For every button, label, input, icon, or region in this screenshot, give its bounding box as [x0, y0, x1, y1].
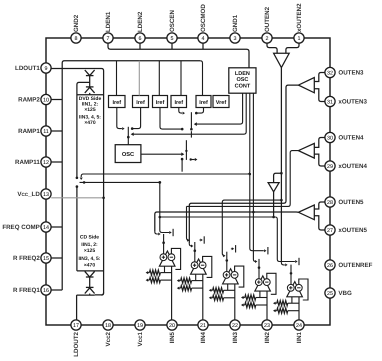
pin 11 circle [41, 126, 51, 136]
pin 2 circle [262, 33, 272, 43]
wire Iref4 bottom drop [179, 108, 182, 114]
wire r3 corner down (cell2 pole feed) [187, 206, 189, 240]
svg-text:OUTEN2: OUTEN2 [264, 6, 271, 32]
svg-text:IIN3: IIN3 [232, 331, 239, 343]
wire Iref2 bottom drop [132, 108, 140, 129]
pin 25 circle [325, 288, 335, 298]
wire CD diode base [77, 294, 95, 296]
wire pin12 RAMP11 stub [51, 161, 62, 163]
resistor R41 [243, 297, 245, 299]
pin 3 circle [230, 33, 240, 43]
svg-text:26: 26 [327, 263, 333, 269]
svg-text:27: 27 [327, 228, 333, 234]
wire LDEN control 2 [132, 93, 246, 134]
pin 4 circle [198, 33, 208, 43]
pin 18 circle [103, 320, 113, 330]
svg-text:29: 29 [327, 164, 333, 170]
pin 22 circle [230, 320, 240, 330]
svg-text:Iref: Iref [156, 100, 165, 106]
wire cell1 bar feed [160, 217, 170, 233]
resistor R11 [148, 272, 150, 274]
pin 21 circle [198, 320, 208, 330]
svg-text:CONT: CONT [235, 84, 251, 90]
wire base stub U13 [227, 284, 229, 290]
wire pin5 stub [171, 43, 173, 49]
switch SW2 select mark [199, 239, 202, 241]
wire pin9 LDOUT1 to LD column [51, 69, 103, 295]
feedback loop U13 [235, 266, 244, 287]
wire [181, 159, 183, 172]
wire inverter output [273, 192, 275, 217]
reference cell Iref3 [153, 96, 168, 108]
svg-text:2: 2 [266, 36, 269, 42]
wire cell1 feedA from rail [159, 182, 161, 217]
IC package outline [46, 38, 330, 325]
pin 24 circle [294, 320, 304, 330]
svg-text:OSC: OSC [122, 152, 134, 158]
op-amp U14 plus input [263, 279, 270, 286]
svg-text:20: 20 [169, 323, 175, 329]
svg-text:FREQ COMP: FREQ COMP [2, 224, 39, 231]
svg-text:LDEN1: LDEN1 [105, 11, 112, 32]
svg-text:×470: ×470 [84, 262, 95, 268]
svg-text:IIN3, 4, 5:: IIN3, 4, 5: [79, 256, 101, 262]
op-amp U14 minus input [255, 279, 262, 286]
wire Iref3 top drop [158, 61, 160, 96]
wire output U14 to pin 267 [266, 291, 268, 320]
inverter U6 [268, 183, 279, 192]
pin 17 circle [71, 320, 81, 330]
pin 13 circle [41, 189, 51, 199]
svg-text:xOUTEN3: xOUTEN3 [338, 99, 367, 106]
svg-text:R FREQ2: R FREQ2 [13, 255, 40, 262]
svg-text:OSCMOD: OSCMOD [200, 4, 207, 32]
svg-text:21: 21 [200, 323, 206, 329]
pin 26 circle [325, 260, 335, 270]
svg-text:R FREQ1: R FREQ1 [13, 287, 40, 294]
svg-text:OUTEN4: OUTEN4 [338, 135, 364, 142]
switch SW-C arrow [190, 158, 192, 160]
svg-text:×470: ×470 [84, 120, 95, 126]
pin 30 circle [325, 132, 335, 142]
control block LDEN OSC CONT [229, 68, 256, 93]
op-amp U15 minus input [287, 284, 294, 291]
pin 6 circle [135, 33, 145, 43]
svg-text:OUTEN5: OUTEN5 [338, 199, 364, 206]
feedback loop U12 [203, 256, 212, 277]
svg-text:OSC: OSC [236, 77, 248, 83]
switch SW4 [258, 259, 260, 267]
svg-text:25: 25 [327, 291, 333, 297]
switch SW-C pole [185, 140, 187, 160]
svg-text:OUTEN3: OUTEN3 [338, 70, 364, 77]
svg-text:IIN5: IIN5 [169, 331, 176, 343]
wire [89, 76, 91, 87]
wire [314, 216, 325, 230]
op-amp U13 A3 (IIN3) [223, 269, 239, 284]
svg-text:5: 5 [171, 36, 174, 42]
wire pin13 Vcc_LD (gray) [51, 197, 103, 199]
wire Iref4 top drop [180, 61, 182, 96]
svg-text:19: 19 [137, 323, 143, 329]
wire pin11 RAMP1 stub [51, 130, 62, 132]
pin 5 circle [167, 33, 177, 43]
svg-text:LDEN2: LDEN2 [137, 11, 144, 32]
feedback loop U14 [267, 273, 276, 294]
wire [89, 277, 91, 287]
svg-text:xOUTEN4: xOUTEN4 [338, 163, 367, 170]
wire LDEN control 4 (to cell4 pole) [253, 93, 255, 262]
svg-text:22: 22 [232, 323, 238, 329]
op-amp U13 minus input [223, 272, 230, 279]
svg-text:GND2: GND2 [73, 14, 80, 32]
switch SW-LD1 [76, 177, 79, 180]
wire rail r5 [160, 216, 275, 218]
wire OUTEN2 buffer output (feeds rail r1 and cell5 pole) [280, 68, 282, 263]
svg-text:24: 24 [296, 323, 302, 329]
op-amp U15 plus input [295, 284, 302, 291]
wire base stub U12 [195, 274, 197, 280]
svg-text:GND1: GND1 [232, 14, 239, 32]
svg-text:xOUTEN2: xOUTEN2 [296, 3, 303, 32]
pin 27 circle [325, 225, 335, 235]
wire pin16 R FREQ1 stub [51, 289, 62, 291]
wire tee to inverter [280, 172, 283, 175]
resistor R52 [275, 310, 277, 312]
pin 19 circle [135, 320, 145, 330]
resistor R32 [211, 297, 213, 299]
op-amp U14 A4 (IIN2) [255, 276, 271, 291]
photodiode D4 (CD) [86, 286, 94, 288]
wire rail r1 to cell3 [222, 200, 281, 256]
wire output U15 to pin 299 [298, 297, 300, 320]
CD box bottom [77, 270, 104, 272]
wire pin10 RAMP2 stub [51, 99, 62, 101]
svg-text:Iref: Iref [136, 100, 145, 106]
feedback loop U11 [171, 248, 180, 269]
switch SW1 [163, 234, 165, 242]
svg-text:OUTENREF: OUTENREF [338, 262, 372, 269]
svg-text:IIN4: IIN4 [200, 331, 207, 343]
svg-text:RAMP2: RAMP2 [18, 97, 40, 104]
svg-text:7: 7 [107, 36, 110, 42]
wire to pin 17 LDOUT2 [76, 295, 78, 320]
svg-text:Iref: Iref [199, 100, 208, 106]
wire pin2 [267, 43, 277, 53]
wire CD right corner [101, 293, 103, 296]
reference cell Vref6 [213, 96, 229, 108]
op-amp U11 minus input [160, 254, 167, 261]
svg-text:RAMP11: RAMP11 [15, 159, 40, 166]
resistor R22 [179, 287, 181, 289]
svg-text:Iref: Iref [174, 100, 183, 106]
svg-text:Vref: Vref [216, 100, 227, 106]
reference cell Iref4 [171, 96, 187, 108]
wire [314, 154, 325, 166]
svg-text:11: 11 [43, 129, 49, 135]
svg-text:VBG: VBG [338, 290, 352, 297]
wire base stub U14 [259, 291, 261, 297]
pin 28 circle [325, 197, 335, 207]
pin 14 circle [41, 222, 51, 232]
resistor R51 [275, 302, 277, 304]
svg-text:×125: ×125 [84, 107, 95, 113]
switch SW3 select mark [230, 248, 233, 250]
switch SW2 [194, 242, 196, 250]
pin 16 circle [41, 285, 51, 295]
resistor R12 [148, 279, 150, 281]
photodiode D2 (DVD) [86, 86, 94, 88]
wire y174 tee to cell4 bar [249, 173, 252, 176]
svg-text:3: 3 [234, 36, 237, 42]
svg-text:Vcc1: Vcc1 [137, 331, 144, 346]
op-amp U12 plus input [199, 262, 206, 269]
svg-text:IIN1: IIN1 [296, 331, 303, 343]
reference cell Iref1 [109, 96, 126, 108]
wire tap to DVD switch [77, 82, 90, 177]
pin 12 circle [41, 157, 51, 167]
pin 7 circle [103, 33, 113, 43]
op-amp U11 plus input [168, 254, 175, 261]
wire [314, 73, 325, 82]
wire LDEN control 1 [195, 93, 243, 124]
resistor R21 [179, 280, 181, 282]
svg-text:LDEN: LDEN [235, 71, 250, 77]
wire LDEN control 3 (rail y174) [81, 93, 250, 177]
wire Iref5 top drop (bus corner) [200, 61, 202, 96]
switch SW1 select mark [169, 231, 171, 234]
svg-text:31: 31 [327, 99, 333, 105]
svg-text:10: 10 [43, 97, 49, 103]
pin 31 circle [325, 96, 335, 106]
svg-text:VCC_LD: VCC_LD [17, 191, 40, 198]
svg-text:IIN2: IIN2 [264, 331, 271, 343]
wire r4 corner to cell1 pole [155, 232, 158, 234]
wire Iref1 bottom drop [117, 108, 122, 129]
svg-text:9: 9 [45, 66, 48, 72]
svg-text:28: 28 [327, 200, 333, 206]
switch SW5 [290, 265, 292, 273]
wire Iref2 top drop [138, 61, 140, 96]
wire output U11 to pin 171.6 [171, 266, 173, 320]
wire rail y182.4 [80, 181, 160, 183]
wire Iref5 bottom drop [197, 108, 204, 114]
pin 9 circle [41, 63, 51, 73]
svg-text:8: 8 [75, 36, 78, 42]
pin 29 circle [325, 161, 335, 171]
switch SW3 [226, 252, 228, 260]
wire OUTEN5 output rail r4 [155, 212, 299, 232]
wire left vertical bus [62, 61, 200, 290]
op-amp U15 A5 (IIN1) [287, 282, 303, 297]
wire Iref3 bottom drop [160, 108, 181, 130]
switch SW-A pole [127, 127, 129, 145]
svg-text:LDOUT2: LDOUT2 [73, 331, 80, 356]
resistor R31 [211, 289, 213, 291]
wire base stub U11 [164, 266, 166, 272]
op-amp U11 A1 (IIN5) [159, 251, 175, 266]
op-amp U13 plus input [231, 272, 238, 279]
pin 8 circle [71, 33, 81, 43]
svg-text:OSCEN: OSCEN [169, 9, 176, 32]
svg-text:32: 32 [327, 70, 333, 76]
op-amp U12 minus input [191, 262, 198, 269]
wire [314, 138, 325, 148]
svg-text:6: 6 [139, 36, 142, 42]
wire output U12 to pin 203 [202, 274, 204, 320]
resistor R42 [243, 304, 245, 306]
wire OUTEN3 output (rail r2 to cell2) [189, 85, 298, 244]
svg-text:16: 16 [43, 288, 49, 294]
wire CD box left edge [76, 187, 78, 271]
wire pin15 R FREQ2 stub [51, 257, 62, 259]
svg-text:1: 1 [298, 36, 301, 42]
svg-text:13: 13 [43, 192, 49, 198]
wire OUTEN4 output (rail r3) [187, 151, 299, 207]
oscillator OSC [115, 145, 141, 163]
svg-text:xOUTEN5: xOUTEN5 [338, 227, 367, 234]
wire [89, 93, 91, 95]
pin 20 circle [167, 320, 177, 330]
svg-text:LDOUT1: LDOUT1 [15, 65, 40, 72]
wire Iref1 top drop [116, 61, 118, 96]
svg-text:17: 17 [73, 323, 79, 329]
svg-text:14: 14 [43, 225, 49, 231]
svg-text:23: 23 [264, 323, 270, 329]
svg-text:18: 18 [105, 323, 111, 329]
feedback loop U15 [299, 279, 308, 300]
svg-text:15: 15 [43, 256, 49, 262]
wire base stub U15 [291, 297, 293, 303]
wire DVD box top [77, 94, 104, 96]
reference cell Iref5 [196, 96, 211, 108]
wire [89, 294, 91, 296]
svg-text:RAMP1: RAMP1 [18, 128, 40, 135]
svg-text:30: 30 [327, 135, 333, 141]
svg-text:Vcc2: Vcc2 [105, 331, 112, 346]
wire pin14 FREQ COMP stub [51, 226, 62, 228]
reference cell Iref2 [133, 96, 149, 108]
laser diode D3 (CD) [85, 271, 95, 277]
svg-text:×125: ×125 [84, 248, 95, 254]
wire bus pins 7,6,5,4 to LDEN OSC CONT [108, 43, 249, 68]
svg-text:12: 12 [43, 160, 49, 166]
pin 23 circle [262, 320, 272, 330]
svg-text:Iref: Iref [112, 100, 121, 106]
wire pin6 stub [139, 43, 141, 49]
wire [314, 89, 325, 102]
pin 15 circle [41, 253, 51, 263]
laser diode D1 (DVD) [85, 70, 95, 76]
pin 1 circle [294, 33, 304, 43]
wire rail r5 corner to cell5 bar [275, 217, 295, 262]
pin 32 circle [325, 67, 335, 77]
op-amp U12 A2 (IIN4) [191, 259, 207, 274]
wire pin1 [286, 43, 299, 53]
wire pin4 stub [202, 43, 204, 49]
svg-text:CD Side: CD Side [80, 235, 99, 241]
switch SW-B pole [190, 112, 192, 129]
svg-text:4: 4 [202, 36, 205, 42]
pin 10 circle [41, 94, 51, 104]
wire output U13 to pin 235 [234, 284, 236, 320]
wire [314, 202, 325, 209]
wire OSC output [141, 153, 182, 155]
